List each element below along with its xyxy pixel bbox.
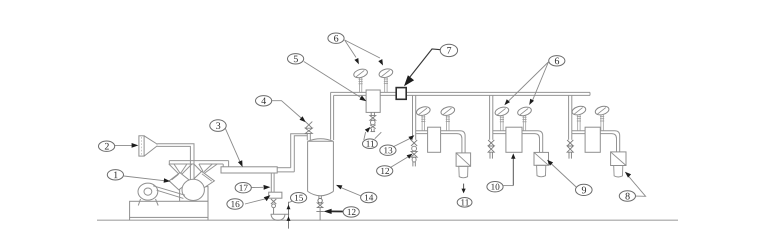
motor legs [138,199,140,206]
callout 16 [227,199,243,209]
callout 7 leader (thick) [410,49,443,78]
callout 6b leaders [508,62,548,102]
flywheel [182,179,204,200]
branch gauge 1 (item 6) [415,105,431,117]
air receiver tank (item 14) [307,141,309,191]
intake pipe from filter [157,144,194,184]
callout 11a leaders [364,132,366,140]
drop shutoff valve (globe) [567,140,573,146]
filter-regulator box [506,127,522,152]
drop pipe from main line [568,95,570,139]
intake manifold [169,160,228,162]
callout 8 [619,191,635,201]
callout 4 [256,96,272,106]
callout 4 leader [272,101,303,120]
callout 12a [377,166,393,176]
callout 13 leader [394,138,411,146]
lubricator bowl [459,166,468,177]
drain outflow arrow line (item 15) [288,202,290,229]
callout 9 leader [551,164,576,188]
riser from tank to main line [330,92,332,139]
motor M1 [138,183,158,200]
branch gauge 2 (item 6) [517,106,533,118]
drain drop pipe from header (item 17) [270,173,272,192]
tank drain valve (item 12) [318,196,320,199]
callout 10 [487,182,503,192]
manifold V-connection to left cylinder [169,164,180,175]
right cylinder of compressor [194,171,214,188]
callout 10 leader [503,185,513,187]
discharge header pipe (item 3) [221,167,277,173]
arrow up to station 2 filter-regulator (item 10) [512,158,514,186]
callout 13 [380,145,396,155]
branch gauge 1 (item 6) [571,105,587,117]
callout 8 leader [628,176,646,197]
drain sump dome [271,213,290,215]
drop pipe from main line [489,95,491,139]
air intake filter F1 (item 2) [139,136,144,156]
callout 3 [210,120,226,132]
drop pipe from main line [412,95,414,139]
trap drain valve [271,199,276,204]
callout 6a [328,33,344,43]
callout 2 leader [115,144,132,146]
lubricator bowl [614,166,623,178]
filter-regulator box [428,127,441,152]
pressure switch box (item 5) [366,90,380,112]
callout 17 [235,183,251,193]
callout 14 [361,192,377,202]
callout 16 leader [245,199,265,204]
station 1 outlet arrow [463,184,465,191]
gauge PG-a (item 6) [353,68,369,80]
lubricator box [534,152,549,165]
callout 5 leader [304,62,362,99]
callout 15 [291,193,307,203]
left cylinder of compressor [169,173,190,190]
callout 17 leader [251,186,263,188]
lubricator box [456,153,471,166]
callout 1 leader [124,176,165,181]
riser pipe to check valve [291,134,308,168]
drop shutoff valve (globe) [488,140,494,146]
compressor base [130,201,208,217]
callout 12b [343,207,359,217]
callout 12a leader [391,157,409,168]
callout 11b [457,198,472,208]
gauge PG-b (item 6) [378,67,394,79]
callout 7 [440,44,457,56]
callout 6a leaders [345,40,356,57]
callout 11a [363,139,378,149]
relief/unloader stack under item 5 (item 11) [370,112,372,115]
condensate trap box (item 16) [269,192,282,198]
lubricator bowl [537,165,546,176]
callout 14 leader [341,187,362,196]
branch line [493,131,543,153]
filter-regulator box [585,127,600,152]
manifold-to-header elbow [228,161,230,167]
branch gauge 2 (item 6) [594,105,610,117]
callout 6b [549,56,565,66]
callout 15 leader [289,201,293,203]
safety valve block (item 7) [396,88,406,100]
callout 3 leader [225,129,240,164]
compressor crankcase [180,187,208,202]
lower drain valve on drop [411,151,417,154]
main distribution line [331,91,590,93]
callout 1 [107,170,123,180]
manifold V-connection to right cylinder [194,164,203,173]
branch line [416,131,465,153]
check valve (item 4) [305,122,312,129]
callout 2 [99,141,115,151]
drop shutoff valve (globe) [411,140,417,146]
branch gauge 2 (item 6) [440,105,456,117]
branch line [572,131,620,152]
drive belt [153,186,185,195]
lubricator box [611,152,626,166]
callout 5 [288,54,304,64]
branch gauge 1 (item 6) [494,106,510,118]
ground line [97,219,678,221]
callout 12b arrow (thick) [330,210,344,212]
callout 9 [576,184,593,195]
